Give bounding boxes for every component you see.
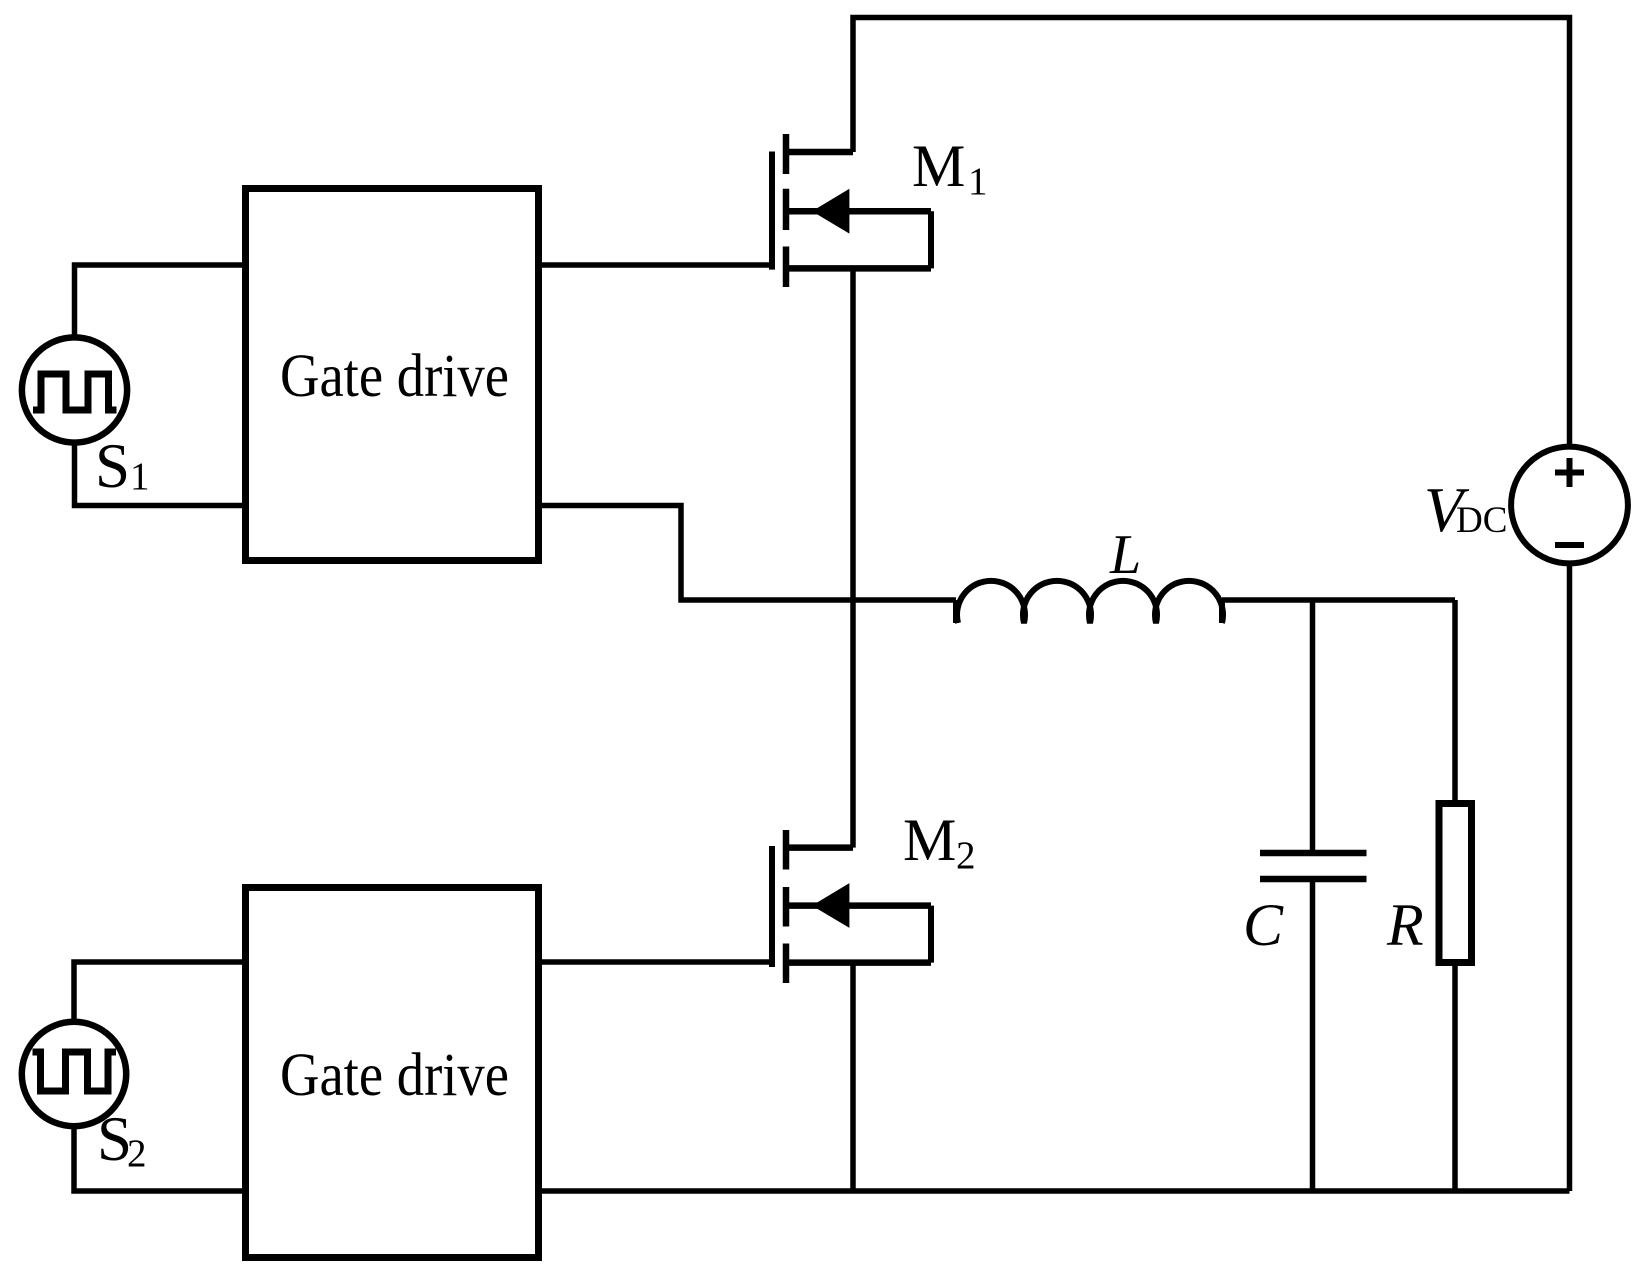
svg-text:2: 2 (127, 1132, 147, 1175)
transistor M1 channel dashes (783, 134, 790, 287)
svg-text:1: 1 (968, 160, 988, 203)
svg-text:R: R (1386, 892, 1424, 958)
transistor M2 channel dashes (783, 830, 790, 983)
wire gate drive 1 lower output to switch node (539, 506, 956, 601)
pulse source S1 (22, 337, 127, 442)
wire S1 top lead to gate drive 1 (75, 265, 246, 338)
svg-text:Gate drive: Gate drive (280, 1042, 509, 1109)
resistor R top lead (1452, 600, 1458, 800)
transistor M2 body stub (786, 902, 931, 909)
pulse source S2 (22, 1022, 126, 1126)
inductor L (956, 581, 1223, 623)
transistor M1 body stub (786, 208, 931, 215)
svg-text:L: L (1109, 524, 1141, 586)
svg-text:M: M (903, 807, 956, 873)
resistor R bottom lead (1452, 966, 1458, 1191)
source V_DC minus (1555, 542, 1584, 548)
wire gate drive 1 output to M1 gate (539, 262, 772, 268)
gate drive U1 box (246, 189, 539, 561)
source V_DC circle (1511, 447, 1628, 564)
transistor M1 source stub (786, 265, 931, 272)
wire S2 top lead to gate drive 2 (74, 962, 245, 1022)
capacitor C plates (1260, 853, 1367, 879)
transistor M1 drain stub (786, 149, 853, 156)
transistor M1 body-source loop (928, 211, 934, 268)
capacitor C top lead (1310, 600, 1316, 850)
transistor M2 gate bar (769, 846, 775, 967)
transistor M2 drain stub (786, 844, 853, 851)
wire inductor to R corner (1222, 597, 1455, 603)
wire S1 bottom lead to gate drive 1 (75, 442, 246, 506)
svg-text:2: 2 (956, 834, 976, 877)
svg-text:S: S (95, 431, 130, 501)
wire M1 source to M2 drain (switch node vertical) (850, 268, 856, 847)
svg-text:C: C (1243, 892, 1284, 958)
source V_DC plus (1555, 458, 1584, 487)
wire gate drive 2 output to M2 gate (539, 959, 772, 965)
wire S2 bottom lead to bottom rail (74, 1126, 245, 1191)
transistor M1 body diode arrow (812, 189, 849, 234)
wire M2 source to bottom rail (850, 963, 856, 1191)
svg-text:DC: DC (1456, 500, 1507, 541)
transistor M2 body diode arrow (812, 883, 849, 928)
svg-text:Gate drive: Gate drive (280, 343, 509, 410)
wire V_DC minus to bottom rail (1567, 564, 1573, 1192)
transistor M1 gate bar (769, 152, 775, 270)
svg-text:M: M (912, 133, 965, 199)
transistor M2 body-source loop (928, 906, 934, 963)
svg-text:1: 1 (130, 455, 150, 498)
resistor R body (1439, 804, 1472, 963)
capacitor C bottom lead (1310, 882, 1316, 1191)
wire M1 drain to top rail and V_DC plus (853, 18, 1570, 448)
transistor M2 source stub (786, 959, 931, 966)
gate drive U2 box (246, 888, 539, 1258)
bottom rail (539, 1188, 1570, 1194)
